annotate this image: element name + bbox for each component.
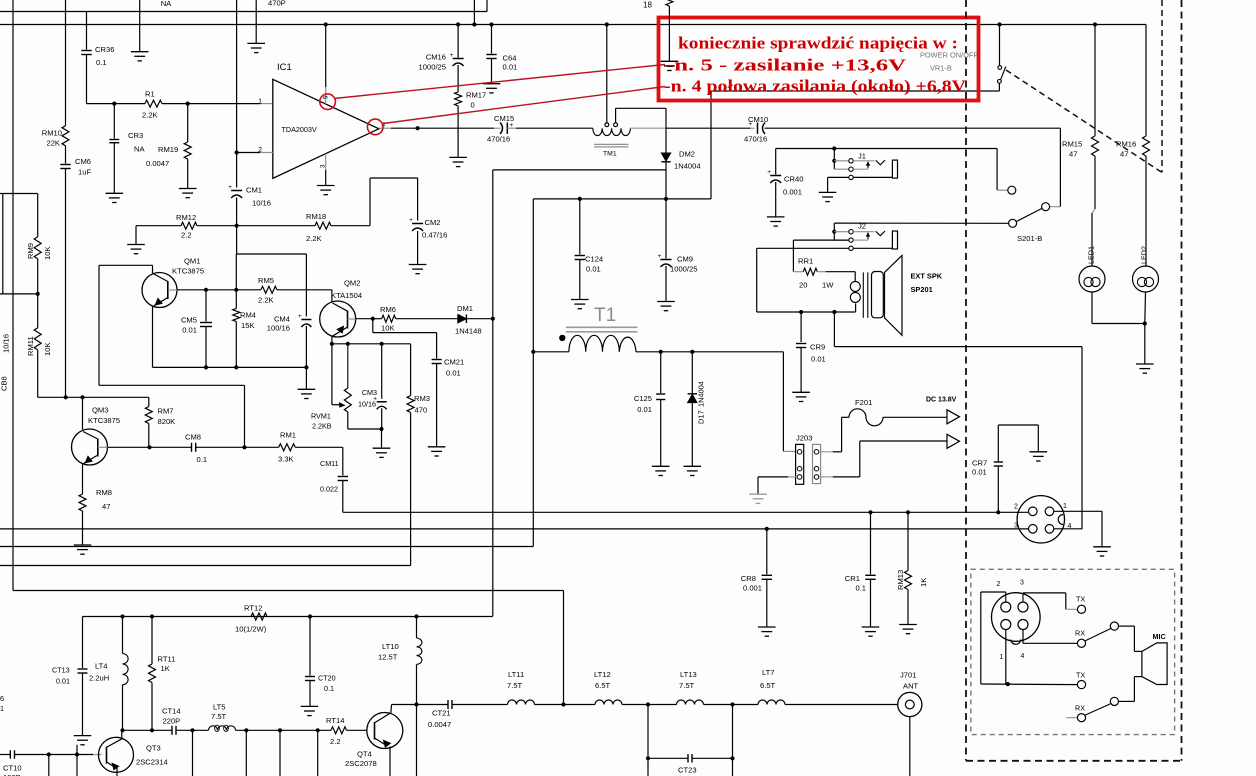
connector J1 pin stubs: [834, 160, 849, 162]
junction CT23 left: [646, 702, 650, 706]
svg-text:2.2K: 2.2K: [142, 111, 158, 120]
svg-text:RM9: RM9: [26, 243, 35, 259]
junction CM6 line: [64, 395, 68, 399]
wire QM1 loop bottom: [99, 384, 245, 386]
svg-text:-n. 5 - zasilanie +13,6V: -n. 5 - zasilanie +13,6V: [666, 56, 906, 75]
svg-text:1N4148: 1N4148: [455, 327, 482, 336]
wire CT21 to LT11: [452, 704, 508, 706]
svg-text:TM1: TM1: [603, 150, 617, 157]
wire CM3 bottom lead: [381, 408, 383, 429]
connector J1 feed vertical: [833, 149, 835, 170]
svg-text:0.022: 0.022: [320, 485, 338, 494]
wire DM2 cathode down: [665, 162, 667, 199]
wire RM17 to ground: [457, 106, 459, 157]
svg-text:1: 1: [1000, 654, 1004, 661]
wire QM2 base to RM6 node: [356, 318, 373, 320]
ground CM4 node: [298, 388, 316, 390]
diode DM1 1N4148: [458, 314, 467, 323]
wire RM12 to RM18: [197, 225, 315, 227]
wire LT4 top lead: [122, 617, 124, 654]
svg-text:0.01: 0.01: [637, 405, 652, 414]
svg-text:NA: NA: [161, 0, 172, 8]
svg-text:LED2: LED2: [1140, 246, 1149, 264]
wire J203 right-top to fuse: [819, 451, 833, 453]
speaker cone: [885, 255, 903, 335]
dashed panel bottom: [966, 760, 1182, 762]
connector DC plug notch: [1058, 515, 1063, 525]
junction QM2 emitter: [330, 342, 334, 346]
wire y=346.6 to corner: [834, 346, 1082, 348]
transformer T1 core lines: [566, 326, 638, 328]
wire RM3 top lead: [410, 344, 412, 396]
svg-text:2: 2: [997, 581, 1001, 588]
svg-text:4: 4: [1021, 653, 1025, 660]
fuse F201: [849, 409, 883, 426]
svg-text:1: 1: [0, 704, 4, 713]
wire D17 cathode lead: [691, 352, 693, 394]
wire QM1 base line: [177, 289, 236, 291]
wire mic pin3 to TX1: [1022, 593, 1024, 602]
svg-text:RM17: RM17: [466, 91, 486, 100]
svg-text:TDA2003V: TDA2003V: [282, 125, 317, 134]
junction RM13: [906, 510, 910, 514]
ground RM19: [179, 188, 197, 190]
svg-text:2SC2314: 2SC2314: [136, 758, 168, 767]
svg-text:KTC3875: KTC3875: [88, 416, 120, 425]
wire drop to bottom 1: [192, 730, 194, 776]
junction mic pin1: [1006, 682, 1010, 686]
speaker magnet: [872, 272, 884, 318]
resistor RM8 47: [79, 494, 86, 511]
svg-text:CM15: CM15: [494, 114, 514, 123]
wire QT3 base line: [0, 754, 10, 756]
wire C125 top lead: [660, 352, 662, 393]
wire left edge jog horizontal: [0, 193, 38, 195]
DC 13.8V arrow 1: [947, 410, 960, 424]
svg-text:CR3: CR3: [128, 131, 143, 140]
svg-text:RX: RX: [1075, 629, 1085, 638]
svg-text:1uF: 1uF: [78, 168, 91, 177]
junction RM7/base: [147, 445, 151, 449]
junction RM6/CM21: [371, 317, 375, 321]
inductor LT11 7.5T: [508, 700, 535, 705]
bus y=528.9: [0, 528, 1029, 530]
wire CM16 to RM17: [457, 65, 459, 92]
transistor QT4 2SC2078: [367, 713, 403, 749]
svg-text:CM8: CM8: [185, 433, 201, 442]
svg-text:220P: 220P: [163, 717, 181, 726]
ground CR8: [758, 626, 776, 628]
ground CT13: [74, 735, 92, 737]
dashed panel line left: [965, 0, 967, 761]
DC 13.8V arrow 2: [947, 434, 960, 448]
svg-text:LT10: LT10: [382, 642, 399, 651]
wire RT11 top lead: [151, 617, 153, 665]
transformer T1 winding: [569, 335, 636, 351]
ground 18-res: [661, 60, 679, 62]
wire CT23 line right part: [692, 757, 733, 759]
switch S201-B left contact: [1009, 219, 1017, 227]
junction CR3 node: [112, 102, 116, 106]
wire corner down x=1082: [1081, 347, 1083, 530]
svg-text:10/16: 10/16: [252, 199, 271, 208]
wire RM16 corner from rail: [1145, 25, 1147, 137]
wire CT20 drop: [309, 617, 311, 676]
wire IC1 pin2 from CM1 vertical: [237, 152, 260, 154]
transistor QM1 KTC3875: [142, 273, 177, 308]
capacitor CR36 0.1: [81, 50, 91, 52]
wire CM1 vertical from top edge: [236, 0, 238, 188]
connector J2 sleeve wire: [853, 247, 892, 249]
wire audio line to CM10: [666, 127, 751, 129]
svg-text:1N4004: 1N4004: [674, 162, 701, 171]
connector J2 arrow contact: [853, 239, 868, 241]
RVM1 wiper from QM2 emitter: [331, 344, 333, 405]
junction C125: [659, 350, 663, 354]
wire stub left at node: [0, 293, 38, 295]
svg-text:47: 47: [1120, 150, 1128, 159]
wire mic pin1 down: [1005, 630, 1007, 685]
svg-text:LT4: LT4: [95, 662, 108, 671]
connector J1 sleeve rect: [892, 160, 897, 178]
svg-text:QM1: QM1: [184, 257, 200, 266]
wire LT7 to J701: [785, 704, 898, 706]
ground RM13: [899, 624, 917, 626]
wire QM3 emitter down: [82, 464, 84, 494]
wire VR1-B from rail: [999, 25, 1001, 66]
junction QT3 collector: [120, 728, 124, 732]
wire CR3 top lead: [113, 104, 115, 139]
svg-text:2SC2078: 2SC2078: [345, 759, 377, 768]
red callout line to pin4: [383, 87, 665, 124]
wire IC1 output: [379, 127, 391, 129]
junction CR7: [996, 510, 1000, 514]
wire TM1 tap2 up: [615, 108, 617, 123]
connector J2 pin stubs: [834, 231, 849, 233]
svg-text:1K: 1K: [161, 664, 170, 673]
inductor LT13 7.5T: [677, 700, 704, 705]
svg-text:KTC3875: KTC3875: [172, 267, 204, 276]
svg-text:2: 2: [258, 147, 262, 154]
wire LT12 to LT13: [622, 704, 677, 706]
wire CM8 to RM1: [196, 446, 279, 448]
wire LT11 to LT12: [535, 704, 596, 706]
capacitor CR8 0.001: [762, 574, 772, 576]
wire mic pin2 loop: [1005, 592, 1007, 602]
wire voice coil to bottom: [855, 303, 857, 312]
svg-text:IC1: IC1: [277, 62, 292, 73]
wire supply line y=199: [533, 198, 711, 200]
wire CM1 to RM12 line: [236, 198, 238, 226]
svg-text:J203: J203: [796, 434, 812, 443]
ground under 470P stub: [247, 42, 265, 44]
junction x=563.5: [561, 702, 565, 706]
wire RM9-RM11 junction: [37, 259, 39, 328]
wire CM2 vertical: [417, 178, 419, 221]
svg-text:RT14: RT14: [326, 716, 344, 725]
connector J1 pin circles: [849, 159, 853, 163]
svg-text:2.2: 2.2: [181, 231, 192, 240]
switch S201-B lever: [1016, 208, 1042, 221]
wire R1 to IC1 pin1: [162, 103, 260, 105]
svg-text:1: 1: [1063, 503, 1067, 510]
wire CM21 to ground: [436, 364, 438, 447]
junction LT4: [120, 614, 124, 618]
terminal TX1: [1077, 605, 1085, 613]
wire LED1 bottom: [1091, 292, 1093, 324]
wire 470P stub top: [255, 0, 257, 43]
svg-text:CR1: CR1: [845, 574, 860, 583]
svg-text:RT11: RT11: [158, 655, 176, 664]
wire RM6 to DM1: [396, 318, 458, 320]
capacitor CM11 0.022: [338, 476, 348, 478]
svg-text:0.01: 0.01: [182, 326, 197, 335]
wire C124 to ground: [579, 260, 581, 300]
wire drop to bottom 2: [245, 730, 247, 776]
svg-text:CM5: CM5: [181, 316, 197, 325]
wire RF rail y=616.5: [83, 616, 493, 618]
wire CM3 node to ground: [381, 429, 383, 448]
junction T1 left: [531, 350, 535, 354]
bus y=590.5: [13, 590, 564, 592]
wire RM4 bottom lead: [235, 322, 237, 368]
wire RM4 top lead: [235, 254, 237, 309]
wire corner down to S201-B: [1059, 128, 1061, 207]
wire pin4 to x=1082: [1054, 528, 1082, 530]
wire drop to bottom 3: [279, 730, 281, 776]
ground CM21: [428, 446, 446, 448]
svg-text:LT11: LT11: [508, 670, 524, 679]
speaker voice coil loops: [850, 281, 860, 291]
svg-text:CM4: CM4: [274, 315, 290, 324]
wire LT10 link: [416, 617, 418, 639]
svg-text:SP201: SP201: [911, 285, 933, 294]
junction on main rail: [605, 22, 609, 26]
wire T1 right lead: [636, 351, 783, 353]
wire RT11 bottom lead: [151, 683, 153, 731]
feedback box top: [236, 226, 238, 254]
switch VR1-B lever: [1001, 67, 1006, 80]
wire RM8 to ground: [82, 511, 84, 545]
svg-text:10K: 10K: [43, 342, 52, 356]
svg-text:RM6: RM6: [380, 305, 396, 314]
junction CM3 bottom: [379, 427, 383, 431]
ground C64: [483, 83, 501, 85]
switch RX2 lever: [1085, 704, 1111, 716]
wire CT23 line: [648, 757, 688, 759]
wire DM2 anode lead: [665, 108, 667, 152]
resistor RM9 10K: [34, 237, 41, 259]
wire CT20 to ground: [309, 681, 311, 707]
svg-text:RM5: RM5: [258, 276, 274, 285]
svg-text:D17: D17: [697, 410, 706, 424]
svg-text:CT10: CT10: [3, 764, 22, 773]
ground RM17: [449, 156, 467, 158]
svg-text:LT7: LT7: [762, 668, 775, 677]
svg-text:0.1: 0.1: [324, 684, 334, 693]
wire D17 anode to ground: [691, 403, 693, 467]
svg-text:C125: C125: [634, 394, 652, 403]
ground DC pin1: [1093, 546, 1111, 548]
TM1 tap circles: [605, 123, 609, 127]
svg-text:CR8: CR8: [741, 574, 756, 583]
svg-text:QM3: QM3: [92, 406, 108, 415]
wire J203 right-bottom to arrow 2: [819, 476, 833, 478]
svg-text:7.5T: 7.5T: [679, 681, 695, 690]
svg-text:10/16: 10/16: [358, 400, 376, 409]
wire stub up to ground bar: [76, 745, 78, 755]
junction base line 2: [75, 752, 79, 756]
junction CT20: [308, 614, 312, 618]
ground J203 gray: [749, 493, 767, 495]
wire 18-res to ground: [668, 6, 670, 61]
junction LED return: [1143, 321, 1147, 325]
svg-text:0.01: 0.01: [503, 63, 518, 72]
wire QM1 base stub: [168, 289, 177, 291]
capacitor CR1 0.1: [865, 574, 875, 576]
svg-text:C124: C124: [585, 255, 603, 264]
svg-text:TX: TX: [1076, 595, 1085, 604]
wire speaker node to y=346.6: [833, 312, 835, 347]
wire QT4 emitter down: [389, 747, 391, 776]
svg-text:1K: 1K: [919, 578, 928, 587]
svg-text:TX: TX: [1076, 671, 1085, 680]
diode D17 1N4004: [688, 393, 697, 395]
resistor RM3 470: [407, 396, 414, 413]
svg-text:5: 5: [324, 95, 330, 99]
ground J1: [819, 191, 837, 193]
svg-text:LT5: LT5: [213, 703, 226, 712]
resistor RM18 2.2K: [315, 222, 331, 229]
wire QT4 collector: [390, 705, 393, 713]
switch RX1 lever: [1085, 629, 1111, 642]
wire T1 right corner down: [782, 352, 784, 452]
svg-text:0.01: 0.01: [446, 369, 461, 378]
resistor RM6 10K: [373, 318, 382, 320]
switch S201-B right contact: [1042, 203, 1050, 211]
wire audio to S201-B corner: [765, 127, 1061, 129]
svg-text:CR9: CR9: [810, 343, 825, 352]
junction on main rail: [456, 22, 460, 26]
svg-text:0.01: 0.01: [972, 468, 987, 477]
red circle pin4: [367, 119, 383, 135]
svg-text:1000/25: 1000/25: [419, 63, 446, 72]
junction LT10: [414, 614, 418, 618]
svg-text:6: 6: [0, 694, 4, 703]
wire RM19 top lead: [187, 104, 189, 142]
terminal RX1: [1077, 639, 1085, 647]
wire CT10 to QT3 base: [15, 754, 94, 756]
svg-text:QM2: QM2: [344, 279, 360, 288]
wire RM10-CM6: [65, 146, 67, 164]
junction CM2 branch: [416, 126, 420, 130]
wire J2 ring to RR1 drop: [793, 239, 848, 241]
junction CR1: [868, 510, 872, 514]
svg-text:CR7: CR7: [972, 459, 987, 468]
inductor LT12 6.5T: [595, 700, 622, 705]
svg-text:47: 47: [1069, 150, 1077, 159]
junction CT23 right: [730, 702, 734, 706]
junction QM1 collector loop: [242, 445, 246, 449]
wire RM11 bottom lead: [37, 350, 39, 398]
svg-text:CM3: CM3: [362, 388, 377, 397]
inductor LT10 12.5T: [417, 638, 422, 664]
svg-text:2.2: 2.2: [330, 737, 341, 746]
ground CR3: [106, 192, 124, 194]
svg-text:CM2: CM2: [425, 218, 441, 227]
junction on main rail: [489, 22, 493, 26]
switch RX1 throw contact: [1110, 622, 1118, 630]
bus y=512.3: [343, 511, 1029, 513]
wire pin1 to ground: [1054, 510, 1102, 512]
svg-text:820K: 820K: [158, 417, 176, 426]
wire TM1 right lead: [630, 127, 666, 129]
wire CR7 top loop: [997, 425, 999, 462]
svg-text:RM8: RM8: [96, 488, 112, 497]
svg-text:DM2: DM2: [679, 150, 695, 159]
wire RM12 left lead: [136, 225, 181, 227]
capacitor C124 0.01: [575, 255, 585, 257]
wire QM3 node line y=397.3: [38, 396, 149, 398]
wire mic pin4 to RX1: [1022, 630, 1024, 644]
terminal TX2: [1077, 681, 1085, 689]
wire tap2 line to DM2: [616, 107, 666, 109]
wire F201 to DC arrow: [883, 416, 947, 418]
wire QT3 emitter down: [116, 769, 118, 776]
capacitor CT20 0.1: [305, 676, 315, 678]
svg-text:R1: R1: [145, 90, 155, 99]
wire QM3 collector lead: [82, 397, 84, 429]
connector J701 ANT: [898, 692, 922, 716]
svg-text:RM18: RM18: [306, 212, 326, 221]
junction RT11 bottom: [150, 728, 154, 732]
wire RM5 to QM2 collector: [277, 289, 332, 291]
transistor QM2 KTA1504: [320, 301, 356, 337]
junction on main rail: [1093, 22, 1097, 26]
junction CM5 bottom: [204, 365, 208, 369]
wire RM15 top lead: [1094, 25, 1096, 137]
wire RR1 to voice coil: [826, 271, 856, 273]
capacitor CM8 0.1 series: [191, 443, 193, 452]
TM1 core lines: [594, 143, 629, 145]
connector J203 left row: [796, 444, 804, 484]
wire RM3 to bus y=565.5: [410, 413, 412, 566]
ground CM2: [409, 264, 427, 266]
wire CT13 to ground: [82, 673, 84, 736]
svg-text:RX: RX: [1075, 704, 1085, 713]
wire CR3 bottom lead: [113, 143, 115, 194]
svg-text:2: 2: [1014, 504, 1018, 511]
svg-text:RM13: RM13: [896, 570, 905, 590]
svg-text:CR36: CR36: [95, 45, 114, 54]
svg-text:KTA1504: KTA1504: [331, 291, 362, 300]
wire CM2 to ground: [417, 231, 419, 265]
svg-text:J1: J1: [858, 152, 866, 161]
resistor RM12 2.2: [181, 222, 197, 229]
svg-text:2.2KB: 2.2KB: [312, 422, 332, 431]
junction on main rail: [997, 22, 1001, 26]
capacitor CM10 470/16 series electrolytic: [751, 127, 755, 129]
junction CR9: [799, 310, 803, 314]
svg-text:3: 3: [1014, 523, 1018, 530]
wire RT14 to QT4 base: [347, 729, 367, 731]
svg-text:RM19: RM19: [158, 145, 178, 154]
capacitor CT14 220P series: [171, 726, 173, 735]
wire drop to bottom 4: [317, 730, 319, 776]
svg-text:RM11: RM11: [26, 336, 35, 356]
wire CM5 top lead: [205, 290, 207, 322]
wire gray stub IC1 pin1: [260, 103, 273, 105]
